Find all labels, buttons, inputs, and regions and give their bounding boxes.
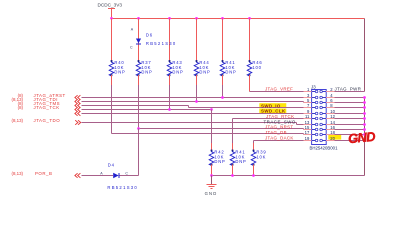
node POR_B left port <box>12 171 81 178</box>
svg-text:RB521S30: RB521S30 <box>107 185 138 190</box>
svg-text:DNP: DNP <box>114 70 125 75</box>
diode D4 RB521S30 <box>100 163 138 191</box>
svg-text:10K: 10K <box>256 154 266 159</box>
svg-text:GND: GND <box>205 191 218 196</box>
wire R37/D4 column down to NRST junction <box>138 85 140 129</box>
wire JTAG_TDI net (pin 5) <box>82 101 304 103</box>
svg-text:(8,13): (8,13) <box>12 171 24 176</box>
wire JTAG_TDO / TRACE_SWO net (pin 13) with jog <box>82 122 297 124</box>
wire pin10 GND stub <box>335 113 365 115</box>
node junction R44/TDI <box>195 100 198 103</box>
connector J3 BH25420B001 <box>304 84 339 150</box>
resistor R43 10K DNP pull-up column <box>167 19 183 86</box>
wire JTAG_VREF net (pin 1) <box>250 91 312 93</box>
svg-text:DNP: DNP <box>214 159 225 164</box>
wire SWD_CLK net (pin 9) <box>82 113 312 115</box>
svg-text:JTAG_DB: JTAG_DB <box>265 130 287 135</box>
wire R44 column down <box>196 85 198 102</box>
node bus junction x=138.5 <box>137 17 140 20</box>
node bus junction x=169.5 <box>168 17 171 20</box>
wire GND rail <box>212 175 365 177</box>
wire JTAG_NRST net (pin 15) <box>139 128 304 130</box>
svg-text:JTAG_NRST: JTAG_NRST <box>265 125 293 130</box>
svg-text:100: 100 <box>252 65 261 70</box>
wire R43 column down <box>169 85 171 110</box>
wire POR_B to D4 anode <box>82 175 114 177</box>
svg-text:JTAG_PWR: JTAG_PWR <box>335 87 362 92</box>
svg-text:JTAG_RTCK: JTAG_RTCK <box>266 114 294 119</box>
node rail junction x=253.5 <box>252 174 255 177</box>
wire pin8 GND stub <box>335 107 365 109</box>
svg-text:(8): (8) <box>18 105 24 110</box>
svg-text:DNP: DNP <box>141 70 152 75</box>
wire D4 cathode to NRST <box>120 175 139 177</box>
svg-text:JTAG_TDO: JTAG_TDO <box>34 118 61 123</box>
node rail junction x=232.5 <box>231 174 234 177</box>
resistor R42 10K DNP pull-down <box>209 143 225 176</box>
wire pin16 GND stub <box>335 129 365 131</box>
svg-text:TRACE_SWO: TRACE_SWO <box>264 119 296 124</box>
svg-text:D4: D4 <box>108 163 115 168</box>
node bus junction x=249.5 <box>248 17 251 20</box>
wire JTAG_DB net (pin 17) <box>112 133 304 135</box>
node bus junction x=196.5 <box>195 17 198 20</box>
wire R42 column up to TCK junction <box>211 110 213 144</box>
node unlabeled input port <box>75 111 78 116</box>
node JTAG_aTRST left port <box>18 93 81 100</box>
node junction R42/TCK end <box>210 108 213 111</box>
svg-text:SWD_IO: SWD_IO <box>261 103 281 108</box>
node JTAG_TDO left port <box>12 118 81 125</box>
svg-text:BH25420B001: BH25420B001 <box>310 145 339 150</box>
node junction D4/R37/NRST <box>137 127 140 130</box>
highlight band SWD_IO <box>259 103 286 108</box>
node junction R41/aTRST <box>221 96 224 99</box>
svg-text:RB521S30: RB521S30 <box>146 41 177 46</box>
wire pin12 GND stub <box>335 118 365 120</box>
wire R46 column down to VREF corner <box>249 85 251 92</box>
resistor R41 10K DNP pull-up column <box>220 19 236 86</box>
svg-text:DNP: DNP <box>225 70 236 75</box>
node JTAG_TMS left port <box>18 101 81 108</box>
highlight band SWD_CLK <box>259 109 286 114</box>
resistor R39 10K pull-down <box>251 143 266 176</box>
ground symbol <box>205 176 218 197</box>
svg-text:GND: GND <box>347 129 376 146</box>
resistor R44 10K DNP pull-up column <box>194 19 210 86</box>
wire pin18 GND stub <box>335 134 365 136</box>
wire JTAG_DACK net (pin 19) <box>254 140 312 142</box>
wire pin14 GND stub <box>335 124 365 126</box>
node JTAG_TDI left port <box>12 97 81 104</box>
svg-text:C: C <box>125 171 128 175</box>
wire DACK corner down to R39 column <box>253 141 255 144</box>
svg-text:JTAG_TCK: JTAG_TCK <box>34 105 60 110</box>
wire pin2 JTAG_PWR stub <box>335 91 365 93</box>
node bus junction x=111.5 <box>110 17 113 20</box>
wire R40 column down to DB line <box>111 85 113 134</box>
resistor R37 10K DNP pull-up column <box>136 19 152 86</box>
wire RTCK corner down to R45 column <box>232 119 234 144</box>
node bus junction x=222.5 <box>221 17 224 20</box>
resistor R40 10K DNP pull-up column <box>109 19 125 86</box>
svg-text:19: 19 <box>305 136 310 141</box>
node JTAG_TCK left port <box>18 105 81 112</box>
wire pin20 GND stub <box>335 140 365 142</box>
svg-text:JTAG_DACK: JTAG_DACK <box>265 135 294 140</box>
svg-text:(8,13): (8,13) <box>12 118 24 123</box>
svg-text:17: 17 <box>305 130 310 135</box>
svg-text:DCDC_3V3: DCDC_3V3 <box>98 3 123 8</box>
diode D6 RB521S30 <box>130 28 177 50</box>
wire 3V3 bus <box>112 18 365 20</box>
wire JTAG_PWR vertical <box>364 19 366 92</box>
wire JTAG_RTCK net (pin 11) <box>233 118 312 120</box>
svg-text:11: 11 <box>305 114 310 119</box>
node rail junction x=211.5 <box>210 174 213 177</box>
wire GND column from connector <box>364 98 366 176</box>
svg-text:POR_B: POR_B <box>35 171 52 176</box>
resistor R41 10K DNP pull-down <box>230 143 246 176</box>
wire pin6 GND stub <box>335 102 365 104</box>
svg-text:DNP: DNP <box>199 70 210 75</box>
svg-text:DNP: DNP <box>172 70 183 75</box>
highlight band pin 20 <box>328 135 341 140</box>
wire pin4 GND stub <box>335 97 365 99</box>
svg-text:D6: D6 <box>146 32 153 37</box>
svg-text:JTAG_VREF: JTAG_VREF <box>265 87 293 92</box>
svg-text:J3: J3 <box>311 84 316 89</box>
svg-text:C: C <box>130 46 133 50</box>
wire JTAG_TCK stub net <box>82 109 212 111</box>
node junction R43/TCK <box>168 108 171 111</box>
resistor R46 100 pull-up column <box>247 19 262 86</box>
wire R41 column down <box>222 85 224 98</box>
svg-text:DNP: DNP <box>235 159 246 164</box>
wire JTAG_TMS / SWD_IO net (pin 7) with jog <box>82 105 189 107</box>
power symbol DCDC_3V3 <box>98 3 123 19</box>
wire JTAG_aTRST net (pin 3) <box>82 97 312 99</box>
